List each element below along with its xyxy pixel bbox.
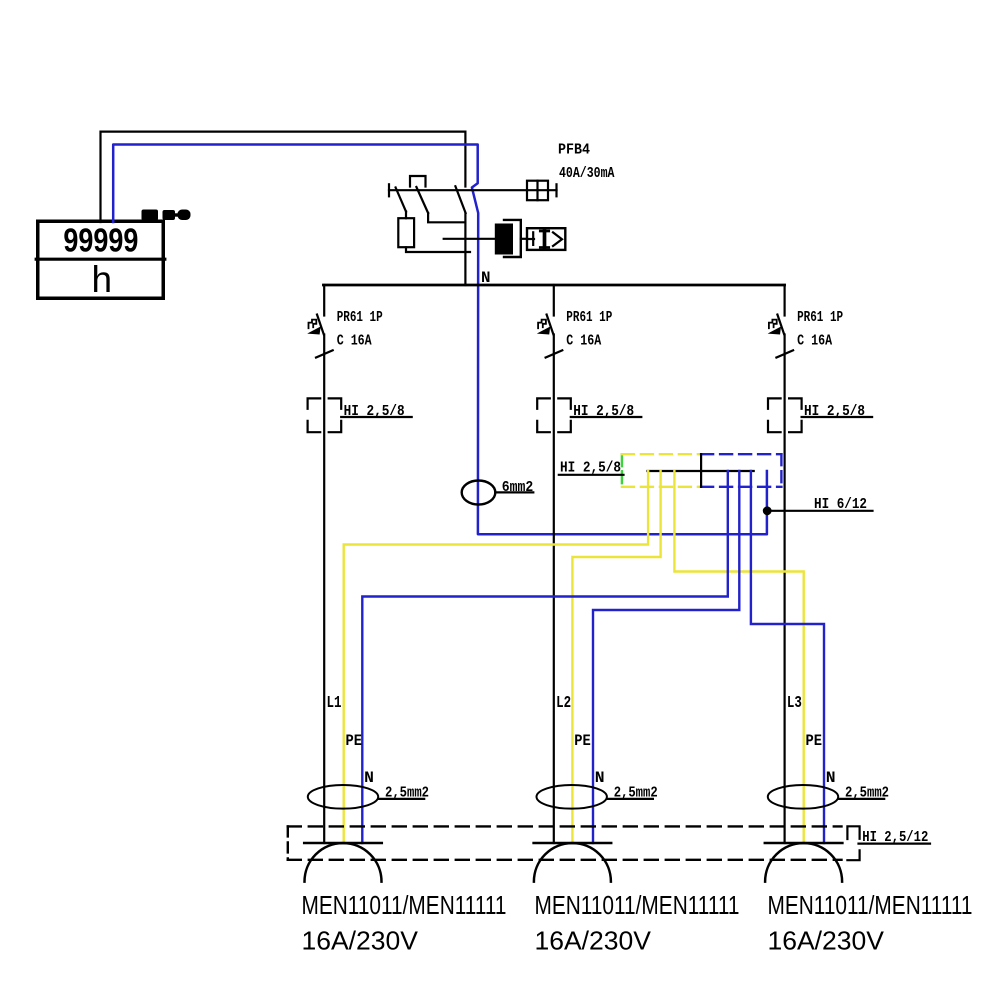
svg-text:MEN11011/MEN11111: MEN11011/MEN11111 bbox=[535, 890, 740, 920]
PE wire to outlet 1 (yellow) bbox=[344, 471, 648, 843]
relay input bar bbox=[532, 232, 534, 245]
N wire to outlet 1 (blue) bbox=[362, 471, 728, 843]
svg-text:PR61 1P: PR61 1P bbox=[566, 309, 612, 326]
terminal strip right edge (blue) bbox=[780, 454, 782, 487]
breaker Q3 lower contact slash bbox=[776, 350, 793, 357]
PE wire to outlet 3 (yellow) bbox=[674, 471, 803, 843]
RCD pole 1 blade bbox=[396, 188, 406, 212]
outlet mounting box dashed left bbox=[287, 826, 289, 859]
6mm2 leader underline bbox=[495, 491, 533, 493]
socket outlet XS1 plate bbox=[304, 842, 382, 845]
RCD coil bottom wire bbox=[406, 247, 470, 252]
breaker Q1 blade bbox=[317, 315, 324, 335]
leader line HI 6/12 bbox=[767, 510, 872, 512]
cable marker ellipse branch 3 bbox=[768, 785, 838, 809]
svg-text:PR61 1P: PR61 1P bbox=[337, 309, 383, 326]
breaker Q2 trip arrow head bbox=[539, 327, 550, 334]
RCD mechanical linkage bracket bbox=[410, 176, 426, 187]
RCD pole 2 blade bbox=[416, 187, 428, 213]
2,5mm2 leader underline branch 3 bbox=[838, 798, 884, 800]
outlet mounting box dashed top bbox=[288, 825, 842, 827]
terminal strip bottom edge N side bbox=[701, 486, 781, 488]
breaker Q3 trip zigzag bbox=[769, 320, 777, 329]
RCD left terminal tick bbox=[388, 184, 390, 196]
cable marker ellipse 6mm2 bbox=[462, 481, 496, 505]
socket outlet XS2 arc bbox=[534, 843, 611, 882]
breaker Q3 blade bbox=[777, 315, 784, 335]
2,5mm2 leader underline branch 1 bbox=[378, 798, 424, 800]
RCD differential relay I> box bbox=[527, 228, 565, 250]
terminal strip top edge N side (blue dashes) bbox=[701, 453, 781, 455]
branch L1 conductor bbox=[323, 335, 325, 844]
svg-text:N: N bbox=[595, 769, 605, 787]
RCD pole 1 lead to coil bbox=[405, 212, 407, 219]
PE wire to outlet 2 (yellow) bbox=[572, 471, 660, 843]
svg-text:C 16A: C 16A bbox=[566, 333, 601, 350]
svg-text:PE: PE bbox=[574, 732, 591, 750]
RCD current transformer core (filled) bbox=[495, 224, 513, 255]
terminal strip internal bus bbox=[648, 470, 754, 472]
svg-text:L1: L1 bbox=[327, 694, 342, 713]
N wire to outlet 2 (blue) bbox=[593, 471, 739, 843]
breaker Q1 upper lead bbox=[323, 285, 325, 316]
svg-text:MEN11011/MEN11111: MEN11011/MEN11111 bbox=[768, 890, 973, 920]
RCD test winding square bbox=[527, 181, 548, 201]
terminal X1 dashed bracket bbox=[308, 398, 342, 432]
svg-text:HI 6/12: HI 6/12 bbox=[814, 496, 867, 513]
cable marker ellipse branch 2 bbox=[537, 785, 607, 809]
svg-text:PR61 1P: PR61 1P bbox=[797, 309, 843, 326]
RCD U1 top conductor line bbox=[389, 189, 557, 191]
socket outlet XS2 plate bbox=[534, 842, 612, 845]
2,5mm2 leader underline branch 2 bbox=[607, 798, 653, 800]
terminal X3 dashed bracket bbox=[768, 398, 802, 432]
svg-text:16A/230V: 16A/230V bbox=[535, 926, 652, 956]
svg-text:PE: PE bbox=[346, 732, 363, 750]
svg-text:PE: PE bbox=[806, 732, 823, 750]
svg-text:16A/230V: 16A/230V bbox=[302, 926, 419, 956]
busbar L distribution bbox=[323, 284, 784, 287]
svg-text:L2: L2 bbox=[556, 694, 571, 713]
breaker Q1 trip arrow head bbox=[309, 327, 320, 334]
terminal strip top edge PE side (yellow dashes) bbox=[622, 453, 701, 455]
strip label underline bbox=[559, 474, 624, 476]
breaker Q3 trip arrow head bbox=[769, 327, 780, 334]
HI 2,5/12 leader underline bbox=[859, 842, 931, 844]
RCD CT outline bracket bbox=[504, 220, 521, 257]
breaker Q2 trip zigzag bbox=[538, 320, 546, 329]
wire L RCD output to busbar bbox=[464, 213, 466, 285]
terminal strip divider (black) bbox=[700, 454, 702, 487]
terminal X2 dashed bracket bbox=[537, 398, 571, 432]
terminal X1 leader underline bbox=[341, 416, 412, 418]
RCD sensing conductor through CT bbox=[444, 238, 496, 240]
breaker Q2 upper lead bbox=[553, 285, 555, 316]
svg-text:N: N bbox=[826, 769, 836, 787]
PE-N terminal strip dashed box left edge (green) bbox=[621, 454, 623, 487]
socket outlet XS3 plate bbox=[765, 842, 843, 845]
RCD right terminal tick bbox=[555, 184, 557, 196]
breaker Q2 lower contact slash bbox=[546, 350, 563, 357]
svg-text:L3: L3 bbox=[787, 694, 802, 713]
outlet mounting box dashed bottom bbox=[288, 859, 842, 861]
socket outlet XS1 arc bbox=[305, 843, 382, 882]
relay > glyph bbox=[553, 232, 562, 246]
svg-text:PFB4: PFB4 bbox=[558, 142, 590, 159]
branch L2 conductor bbox=[553, 335, 555, 844]
RCD pole 3 blade bbox=[455, 186, 465, 213]
terminal X2 leader underline bbox=[571, 416, 642, 418]
cable marker ellipse branch 1 bbox=[308, 785, 378, 809]
svg-text:N: N bbox=[364, 769, 374, 787]
energy meter P1 box bbox=[36, 221, 165, 298]
breaker Q2 blade bbox=[547, 315, 554, 335]
svg-text:40A/30mA: 40A/30mA bbox=[559, 165, 615, 182]
terminal X3 leader underline bbox=[802, 416, 873, 418]
svg-text:MEN11011/MEN11111: MEN11011/MEN11111 bbox=[302, 890, 507, 920]
meter kWh nameplate blob bbox=[142, 210, 191, 221]
terminal strip bottom edge PE side bbox=[622, 486, 701, 488]
breaker Q3 upper lead bbox=[783, 285, 785, 316]
relay input stub bbox=[527, 238, 534, 240]
breaker Q1 trip zigzag bbox=[309, 320, 317, 329]
svg-text:99999: 99999 bbox=[63, 223, 138, 260]
socket outlet XS3 arc bbox=[765, 843, 842, 882]
junction node N feed bbox=[763, 506, 772, 515]
breaker Q1 lower contact slash bbox=[316, 350, 333, 357]
meter register 99999 bbox=[63, 223, 138, 260]
wire N supply (blue) meter to RCD bbox=[113, 145, 767, 535]
mounting box right bracket bbox=[847, 826, 859, 860]
svg-text:C 16A: C 16A bbox=[337, 333, 372, 350]
svg-text:h: h bbox=[92, 259, 113, 300]
N wire to outlet 3 (blue) bbox=[751, 471, 824, 843]
RCD trip coil rectangle bbox=[398, 218, 414, 247]
relay I glyph bbox=[540, 231, 548, 248]
branch L3 conductor bbox=[783, 335, 785, 844]
wire L supply (black) meter to RCD bbox=[101, 132, 466, 222]
RCD pole 2 lead bbox=[428, 213, 465, 222]
svg-text:16A/230V: 16A/230V bbox=[768, 926, 885, 956]
svg-text:C 16A: C 16A bbox=[797, 333, 832, 350]
RCD CT to relay link bbox=[521, 238, 527, 240]
